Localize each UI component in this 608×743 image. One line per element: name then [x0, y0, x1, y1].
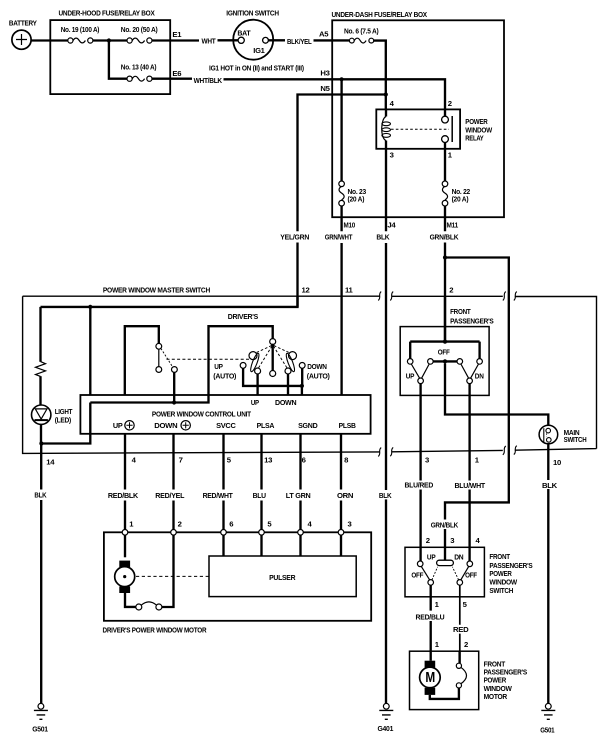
svg-text:BLK: BLK	[376, 233, 390, 242]
svg-text:YEL/GRN: YEL/GRN	[280, 233, 309, 242]
svg-text:3: 3	[425, 456, 429, 465]
svg-text:11: 11	[345, 286, 354, 295]
svg-text:6: 6	[229, 520, 233, 529]
svg-text:IG1 HOT in ON (II) and START (: IG1 HOT in ON (II) and START (III)	[209, 63, 304, 72]
svg-text:SWITCH: SWITCH	[489, 586, 513, 595]
svg-text:M11: M11	[447, 220, 459, 229]
svg-text:FRONT: FRONT	[489, 552, 510, 561]
svg-text:BATTERY: BATTERY	[9, 19, 37, 28]
svg-text:UNDER-DASH FUSE/RELAY BOX: UNDER-DASH FUSE/RELAY BOX	[332, 10, 428, 19]
svg-text:3: 3	[390, 151, 394, 160]
svg-text:WHT: WHT	[202, 37, 217, 46]
svg-text:(LED): (LED)	[55, 415, 72, 424]
svg-text:G501: G501	[540, 725, 555, 734]
svg-text:SWITCH: SWITCH	[564, 435, 587, 444]
svg-text:UP: UP	[214, 362, 223, 371]
svg-text:A5: A5	[319, 29, 329, 38]
svg-text:2: 2	[464, 640, 468, 649]
svg-text:BLU: BLU	[253, 491, 267, 500]
svg-text:RED/WHT: RED/WHT	[203, 491, 234, 500]
svg-text:UP: UP	[251, 398, 259, 407]
svg-text:14: 14	[46, 457, 55, 466]
svg-text:RED/YEL: RED/YEL	[155, 491, 184, 500]
svg-text:3: 3	[450, 536, 454, 545]
svg-text:M10: M10	[344, 220, 356, 229]
svg-text:GRN/BLK: GRN/BLK	[431, 521, 459, 530]
svg-text:PULSER: PULSER	[269, 573, 296, 582]
svg-text:M: M	[425, 669, 435, 686]
svg-text:SGND: SGND	[298, 421, 318, 430]
svg-text:DOWN: DOWN	[307, 362, 327, 371]
svg-text:J4: J4	[387, 220, 396, 229]
svg-text:PASSENGER'S: PASSENGER'S	[450, 316, 494, 325]
svg-text:N5: N5	[320, 84, 330, 93]
svg-text:E6: E6	[172, 69, 181, 78]
svg-text:(AUTO): (AUTO)	[213, 372, 236, 381]
svg-text:BLK: BLK	[542, 481, 558, 490]
svg-text:UP: UP	[406, 372, 415, 381]
svg-text:UP: UP	[427, 552, 436, 561]
svg-text:SVCC: SVCC	[216, 421, 236, 430]
svg-text:BLK: BLK	[379, 491, 392, 500]
svg-text:MOTOR: MOTOR	[484, 692, 508, 701]
svg-text:FRONT: FRONT	[450, 307, 471, 316]
svg-text:RELAY: RELAY	[465, 134, 483, 143]
svg-text:DOWN: DOWN	[275, 398, 297, 407]
svg-text:DN: DN	[475, 372, 484, 381]
svg-text:H3: H3	[320, 69, 329, 78]
svg-text:G401: G401	[378, 724, 395, 733]
svg-text:PLSB: PLSB	[339, 421, 357, 430]
svg-text:POWER WINDOW CONTROL UNIT: POWER WINDOW CONTROL UNIT	[152, 409, 252, 418]
svg-text:PLSA: PLSA	[257, 421, 275, 430]
svg-text:BLU/WHT: BLU/WHT	[455, 481, 486, 490]
svg-text:3: 3	[348, 520, 352, 529]
svg-text:(20 A): (20 A)	[348, 195, 365, 204]
svg-text:6: 6	[302, 456, 306, 465]
svg-text:BAT: BAT	[237, 29, 251, 38]
svg-text:DRIVER'S: DRIVER'S	[228, 312, 258, 321]
svg-text:DOWN: DOWN	[154, 421, 178, 430]
svg-text:ORN: ORN	[337, 491, 354, 500]
svg-text:E1: E1	[172, 30, 182, 39]
svg-text:IG1: IG1	[253, 46, 265, 55]
svg-text:2: 2	[426, 536, 430, 545]
svg-text:OFF: OFF	[411, 571, 423, 580]
svg-text:No. 19 (100 A): No. 19 (100 A)	[61, 25, 100, 34]
svg-text:2: 2	[449, 285, 453, 294]
svg-text:OFF: OFF	[438, 348, 450, 357]
svg-text:G501: G501	[32, 724, 49, 733]
svg-text:2: 2	[448, 99, 452, 108]
svg-text:POWER WINDOW MASTER SWITCH: POWER WINDOW MASTER SWITCH	[103, 285, 211, 294]
svg-text:LT GRN: LT GRN	[286, 491, 311, 500]
svg-text:2: 2	[178, 520, 182, 529]
svg-text:WHT/BLK: WHT/BLK	[194, 76, 223, 85]
svg-text:13: 13	[264, 456, 272, 465]
svg-text:UNDER-HOOD FUSE/RELAY BOX: UNDER-HOOD FUSE/RELAY BOX	[59, 8, 156, 17]
svg-text:IGNITION SWITCH: IGNITION SWITCH	[226, 8, 279, 17]
svg-text:BLK/YEL: BLK/YEL	[287, 37, 312, 46]
svg-text:(20 A): (20 A)	[452, 195, 469, 204]
svg-text:10: 10	[553, 458, 561, 467]
svg-text:No. 13 (40 A): No. 13 (40 A)	[121, 62, 157, 71]
svg-text:(AUTO): (AUTO)	[307, 372, 330, 381]
svg-text:DRIVER'S POWER WINDOW MOTOR: DRIVER'S POWER WINDOW MOTOR	[103, 626, 207, 635]
svg-text:No. 20 (50 A): No. 20 (50 A)	[121, 25, 158, 34]
svg-text:GRN/WHT: GRN/WHT	[325, 233, 353, 242]
svg-text:OFF: OFF	[465, 571, 477, 580]
svg-text:UP: UP	[113, 421, 123, 430]
svg-text:GRN/BLK: GRN/BLK	[430, 233, 459, 242]
svg-text:RED/BLU: RED/BLU	[416, 612, 446, 621]
svg-text:RED: RED	[453, 625, 469, 634]
svg-text:7: 7	[179, 456, 183, 465]
svg-text:BLU/RED: BLU/RED	[405, 481, 434, 490]
svg-text:No. 6 (7.5 A): No. 6 (7.5 A)	[344, 26, 379, 35]
svg-text:BLK: BLK	[34, 490, 47, 499]
svg-text:12: 12	[302, 286, 310, 295]
svg-text:RED/BLK: RED/BLK	[108, 491, 139, 500]
svg-text:DN: DN	[454, 552, 464, 561]
